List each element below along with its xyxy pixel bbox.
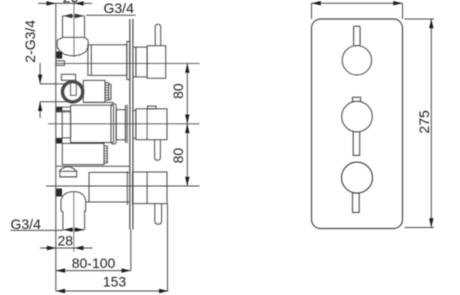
wire: 2-G3/4 leader with arrows <box>39 63 41 84</box>
wire: left body edge / extension line full height <box>55 3 57 291</box>
wire: 275 dimension <box>405 18 435 20</box>
svg-text:80: 80 <box>170 148 186 164</box>
wire: 153 dimension line <box>56 290 169 292</box>
node: port boss mid-left 2 <box>56 138 62 144</box>
node: top pipe centerline <box>73 0 75 57</box>
node: centerline knob1 <box>56 62 200 64</box>
wire: top pipe <box>62 16 64 37</box>
node: centerline knob3 <box>46 185 200 187</box>
node: dark boss upper-left <box>56 51 62 58</box>
wire: 28 dimension line <box>40 247 93 249</box>
component: knob2 base <box>133 111 136 139</box>
svg-text:153: 153 <box>103 274 127 290</box>
component: front knob3 circle <box>342 162 373 193</box>
component: front plate rounded rect <box>312 19 403 229</box>
wire: mid port cylinder to plate <box>111 104 116 144</box>
wire: bottom port cylinder to plate <box>89 171 130 173</box>
svg-text:G3/4: G3/4 <box>104 0 135 16</box>
node: bottom pipe centerline <box>73 192 75 252</box>
component: knob2 nub <box>147 106 156 109</box>
wire: mid block <box>71 105 114 142</box>
component: wall plate side view <box>129 19 131 230</box>
component: front knob2 stem <box>353 132 360 156</box>
component: front knob1 circle <box>342 46 371 75</box>
component: knob1 pin <box>155 24 161 45</box>
node: dark boss bottom-left <box>56 189 62 197</box>
node: port boss mid-left 1 <box>56 107 62 113</box>
node: dome bump lower-left <box>59 167 77 172</box>
component: front knob3 stem <box>353 193 360 213</box>
component: knob3 body <box>133 172 168 204</box>
wire: body section edge <box>56 165 130 167</box>
wire: mid-body top edges <box>85 101 114 103</box>
component: bottom pipe <box>62 211 64 229</box>
component: knob1 base <box>133 47 136 77</box>
wire: top port cylinder to plate <box>88 45 127 76</box>
component: cartridge 2 <box>62 143 104 164</box>
component: bottom port dome <box>61 192 86 201</box>
component: front knob2 nub <box>353 97 361 101</box>
svg-text:28: 28 <box>58 233 74 249</box>
svg-text:80: 80 <box>170 83 186 99</box>
wire: plate extension to 80-100 dim <box>130 230 132 271</box>
node: small step under boss <box>56 61 65 66</box>
component: knob2 pin <box>155 140 161 161</box>
node: pipe OD arrows <box>63 14 73 18</box>
svg-text:26: 26 <box>63 0 79 6</box>
svg-text:275: 275 <box>416 110 432 134</box>
component: front knob2 circle <box>342 101 372 131</box>
svg-text:80-100: 80-100 <box>72 255 116 271</box>
component: front knob1 stem <box>354 26 361 46</box>
svg-text:2-G3/4: 2-G3/4 <box>22 20 38 63</box>
wire: top pipe shoulder <box>63 36 85 38</box>
wire: knob3 right edge extension to 153 dim <box>167 204 169 291</box>
node: bottom OD arrows <box>63 228 72 232</box>
component: knob3 pin <box>155 204 162 225</box>
wire: right view top dimension <box>312 2 403 4</box>
node: centerline knob2 <box>48 123 200 125</box>
component: cartridge body <box>83 80 105 102</box>
svg-text:G3/4: G3/4 <box>11 216 42 232</box>
wire: 80 dimension line vertical <box>186 63 188 186</box>
component: valve circle (thick ring) <box>61 81 84 104</box>
wire: top dimension line 26 <box>38 2 92 4</box>
node: valve top box <box>61 74 75 80</box>
component: knob1 body <box>147 46 166 79</box>
component: knob2 body <box>136 109 167 140</box>
wire: 80-100 dimension line <box>56 270 131 272</box>
